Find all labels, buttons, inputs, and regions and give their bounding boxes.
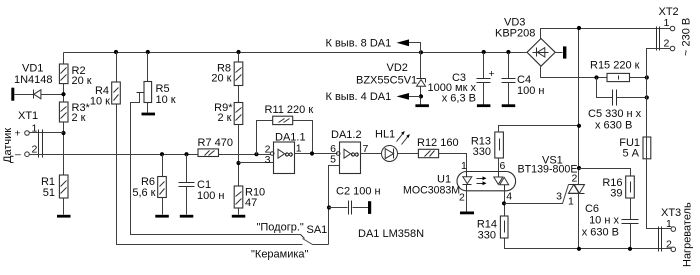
resistor R8 20k: [211, 53, 242, 103]
op-amp DA1.2: [330, 129, 368, 174]
svg-text:х 6,3 В: х 6,3 В: [442, 93, 476, 105]
chassis bar at VD1 cathode: [11, 88, 14, 101]
ground VD2: [415, 104, 429, 107]
label Подогр.: [257, 222, 304, 234]
wire feedback loop: [257, 121, 313, 155]
op-amp DA1.1: [265, 132, 306, 174]
node pin4-gate-R14: [502, 201, 506, 205]
svg-text:5,6 к: 5,6 к: [132, 187, 155, 199]
wire sensor line y=154.2: [30, 154, 271, 156]
svg-text:20 к: 20 к: [72, 75, 92, 87]
wire R13 top to VS1 T2 line: [499, 126, 579, 133]
wire R5 wiper to SA1 upper contact: [131, 93, 305, 239]
svg-text:1: 1: [296, 143, 302, 155]
svg-text:C5 330 н х: C5 330 н х: [588, 108, 642, 120]
node rail-C3: [482, 50, 486, 54]
label Датчик: [2, 128, 14, 163]
triac VS1 BT139-800E: [518, 29, 585, 249]
svg-text:R12 160: R12 160: [417, 137, 459, 149]
node R15 right: [645, 75, 649, 79]
ground U1: [460, 212, 474, 215]
ground C4: [502, 104, 516, 107]
node T1-bus: [577, 247, 581, 251]
node R9-R10-pin3: [236, 161, 240, 165]
node C5 right: [645, 95, 649, 99]
capacitor C3 1000uF: [428, 53, 495, 105]
LED HL1: [375, 129, 410, 162]
node rail-R8: [236, 50, 240, 54]
svg-text:10 к: 10 к: [156, 94, 176, 106]
svg-text:6: 6: [500, 160, 506, 172]
svg-text:2 к: 2 к: [218, 112, 232, 124]
label Керамика: [251, 249, 309, 261]
wire bridge top to XT2.1: [541, 29, 671, 39]
svg-text:+: +: [15, 128, 21, 140]
svg-text:HL1: HL1: [375, 129, 395, 141]
svg-text:2: 2: [571, 173, 577, 185]
resistor R6 5.6k: [132, 152, 166, 214]
node feedback left: [254, 152, 258, 156]
node rail-VD2: [419, 50, 423, 54]
svg-text:SA1: SA1: [307, 224, 328, 236]
svg-text:2: 2: [32, 144, 38, 156]
ground R5: [142, 113, 156, 116]
wire +V rail y=52: [64, 52, 527, 54]
svg-text:2: 2: [664, 38, 670, 50]
svg-text:20 к: 20 к: [211, 73, 231, 85]
optocoupler U1 MOC3083M: [403, 160, 516, 204]
wire R14 to bottom bus: [505, 239, 672, 249]
capacitor C4 100n: [502, 53, 545, 105]
ground R6: [155, 215, 169, 218]
resistor R7 470: [198, 137, 233, 157]
svg-text:KBP208: KBP208: [495, 28, 535, 40]
svg-text:39: 39: [610, 188, 622, 200]
capacitor C2 100n: [329, 186, 381, 215]
node VD1-R2-R3: [61, 84, 65, 103]
resistor R4 10k: [90, 53, 120, 108]
cable marker XT1: [39, 130, 43, 158]
node C6-bus: [628, 247, 632, 251]
wire R4 to SA1 lower contact: [117, 105, 303, 245]
wire bridge right to chassis: [556, 52, 563, 54]
svg-text:"Керамика": "Керамика": [251, 249, 309, 261]
svg-text:∞: ∞: [351, 147, 360, 161]
diode bridge VD3 KBP208: [495, 17, 555, 67]
label ~230V: [681, 18, 693, 56]
svg-text:10 н х: 10 н х: [589, 215, 619, 227]
wire bridge bottom to R15 node: [541, 67, 607, 78]
svg-text:∞: ∞: [285, 147, 294, 161]
svg-text:3: 3: [265, 154, 271, 166]
svg-text:VD2: VD2: [387, 62, 408, 74]
svg-text:VD1: VD1: [22, 63, 43, 75]
svg-text:330: 330: [478, 230, 496, 242]
resistor R9* 2k: [214, 102, 243, 187]
diode VD1 1N4148: [14, 63, 64, 99]
svg-text:1: 1: [666, 218, 672, 230]
node T2 column on XT2.1 line: [577, 26, 581, 30]
wire XT1.1 to node: [30, 132, 64, 134]
capacitor C6 10n 630V: [582, 203, 639, 249]
cable marker XT2: [657, 27, 660, 51]
svg-text:DA1 LM358N: DA1 LM358N: [358, 228, 424, 240]
node output-R11: [310, 151, 314, 155]
wire DA1.2 out to HL1: [361, 153, 382, 155]
node R3-R1-XT1.1: [61, 131, 65, 135]
label DA1 LM358N: [358, 228, 424, 240]
svg-text:100 н: 100 н: [197, 190, 224, 202]
chassis bar at C2: [368, 201, 371, 214]
arrow to pin 4 DA1: [326, 91, 421, 103]
svg-text:51: 51: [43, 187, 55, 199]
wire gate VS1: [505, 185, 569, 204]
node VD2-pin4arrow: [419, 94, 423, 98]
resistor R1 51: [41, 175, 68, 215]
svg-text:1: 1: [568, 196, 574, 208]
svg-text:х 630 В: х 630 В: [595, 120, 632, 132]
svg-text:1: 1: [664, 17, 670, 29]
svg-text:100 н: 100 н: [517, 85, 544, 97]
node rail-C4: [506, 50, 510, 54]
svg-text:5 А: 5 А: [622, 148, 639, 160]
switch SA1: [303, 224, 329, 245]
resistor R13 330: [471, 132, 504, 172]
svg-text:DA1.2: DA1.2: [331, 129, 362, 141]
svg-text:47: 47: [245, 197, 257, 209]
svg-text:BT139-800E: BT139-800E: [518, 164, 578, 176]
svg-text:~ 230 В: ~ 230 В: [681, 18, 693, 56]
svg-text:Нагреватель: Нагреватель: [682, 202, 694, 267]
resistor R10 47: [234, 186, 265, 215]
resistor R15 220k: [590, 60, 647, 82]
svg-text:1N4148: 1N4148: [14, 74, 53, 86]
resistor R14 330: [477, 216, 508, 242]
node R15 left: [594, 75, 598, 79]
node rail-R4: [114, 50, 118, 54]
cable marker XT3: [659, 227, 662, 252]
arrow to pin 8 DA1: [326, 38, 421, 53]
svg-text:R11 220 к: R11 220 к: [265, 104, 314, 116]
ground C3: [477, 104, 491, 107]
chassis bar at bridge: [563, 46, 566, 58]
svg-text:5: 5: [330, 154, 336, 166]
node T2-R13: [577, 124, 581, 128]
svg-text:+: +: [489, 68, 495, 80]
svg-text:"Подогр.": "Подогр.": [257, 222, 304, 234]
resistor R12 160: [417, 137, 459, 158]
wire pin5 DA1.2 down: [329, 166, 340, 245]
wire DA1.1 output: [295, 153, 338, 155]
svg-text:330: 330: [473, 146, 491, 158]
wire HL1 to R12: [398, 153, 419, 155]
svg-text:R7 470: R7 470: [198, 137, 233, 149]
connector XT3: [661, 207, 681, 252]
resistor R2 20k: [59, 53, 91, 88]
wire U1 pin4 down: [504, 191, 506, 217]
fuse FU1 5A: [619, 137, 651, 160]
resistor R16 39: [602, 176, 634, 220]
svg-text:х 630 В: х 630 В: [582, 227, 619, 239]
svg-text:BZX55C5V1: BZX55C5V1: [356, 75, 417, 87]
svg-text:10 к: 10 к: [90, 96, 110, 108]
wire pin3 DA1.1: [239, 162, 274, 164]
svg-text:3: 3: [556, 191, 562, 203]
svg-text:К выв. 4 DA1: К выв. 4 DA1: [326, 91, 392, 103]
connector XT1: [15, 110, 39, 161]
zener VD2 BZX55C5V1: [356, 53, 426, 105]
capacitor C1 100n: [179, 152, 225, 214]
node rail-R5: [146, 50, 150, 54]
trimmer R5 10k: [144, 53, 176, 113]
svg-text:4: 4: [506, 191, 512, 203]
svg-text:2: 2: [459, 192, 465, 204]
wire XT2.2 down fuse column: [647, 49, 671, 137]
svg-text:C2 100 н: C2 100 н: [336, 186, 381, 198]
ground R10: [232, 215, 246, 218]
svg-text:XT1: XT1: [18, 110, 38, 122]
connector XT2: [659, 6, 679, 51]
svg-text:1: 1: [461, 160, 467, 172]
wire FU1 to XT3.1: [647, 159, 671, 229]
node T2-snubber: [577, 166, 581, 170]
ground C1: [180, 215, 194, 218]
resistor R11 220k: [265, 104, 314, 125]
svg-text:К выв. 8 DA1: К выв. 8 DA1: [326, 38, 392, 50]
wire snubber to R16: [579, 169, 631, 177]
ground R1: [57, 215, 71, 218]
svg-text:–: –: [15, 149, 21, 161]
wire R12 to U1 pin1: [439, 154, 467, 172]
svg-text:2 к: 2 к: [72, 112, 86, 124]
label Нагреватель: [682, 202, 694, 267]
svg-text:C6: C6: [585, 203, 599, 215]
resistor R3* 2k: [59, 102, 90, 175]
wire U1 pin2 to ground: [466, 191, 468, 212]
svg-text:2: 2: [666, 239, 672, 251]
node pin5-C2-SA1: [327, 205, 331, 209]
svg-text:MOC3083M: MOC3083M: [403, 184, 460, 196]
svg-text:Датчик: Датчик: [2, 128, 14, 163]
svg-text:R15 220 к: R15 220 к: [590, 60, 640, 72]
capacitor C5 330n 630V: [588, 78, 647, 132]
